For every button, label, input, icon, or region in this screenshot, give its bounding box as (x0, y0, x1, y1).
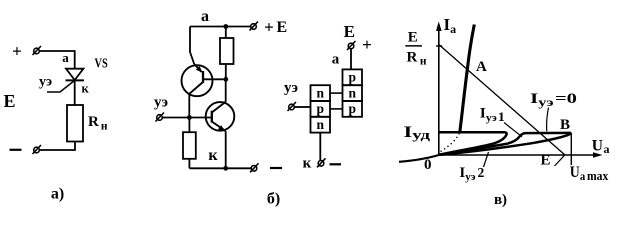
wire p3 to p2 link (330, 108, 343, 110)
svg-text:p: p (348, 101, 356, 116)
svg-text:E: E (277, 19, 288, 36)
terminal X4 (gate clamp) (156, 113, 165, 122)
junction base VT1 / collector VT2 / R1 (223, 77, 228, 82)
svg-text:E: E (408, 30, 418, 46)
wire gate rail (163, 117, 212, 119)
label minus (330, 163, 342, 165)
svg-text:уэ: уэ (39, 75, 52, 90)
junction cathode node (223, 166, 228, 171)
svg-text:а): а) (51, 186, 64, 203)
svg-text:Uаmax: Uаmax (570, 164, 609, 183)
svg-text:+: + (264, 18, 274, 37)
svg-text:A: A (476, 59, 487, 75)
wire cathode (319, 133, 321, 161)
pointer Iue1 to hook (504, 123, 522, 137)
wire resistor to minus terminal (40, 142, 76, 151)
svg-text:в): в) (494, 192, 507, 208)
layer n3 (left column bottom) (311, 117, 331, 133)
svg-text:а: а (332, 51, 340, 67)
wire anode: terminal to thyristor (40, 51, 75, 69)
svg-text:а: а (62, 50, 69, 65)
wire +E to resistor R1 (225, 27, 227, 39)
axis Ua (horizontal) (439, 154, 596, 156)
terminal X2 (cathode clamp) (33, 145, 42, 154)
layer p2 (right column bottom) (343, 101, 363, 117)
svg-text:0: 0 (424, 157, 432, 173)
svg-text:n: n (316, 85, 324, 100)
transistor VT2 (npn) (206, 102, 235, 131)
svg-text:p: p (316, 101, 324, 116)
pointer Iue=0 to curve (547, 108, 549, 132)
svg-text:+: + (362, 35, 372, 54)
layer p1 (right column top) (343, 69, 363, 85)
wire anode (350, 49, 352, 69)
svg-text:n: n (316, 117, 324, 132)
pointer Iue2 to curve (484, 152, 489, 167)
terminal X8 (cathode clamp) (317, 158, 326, 167)
terminal X1 (anode clamp) (33, 46, 42, 55)
svg-text:E: E (541, 153, 551, 169)
svg-text:к: к (208, 147, 218, 164)
terminal X6 (anode clamp) (347, 41, 356, 50)
tick E/RH on axis (436, 45, 442, 47)
svg-text:E: E (4, 91, 16, 111)
terminal X7 (gate clamp) (288, 102, 297, 111)
svg-text:VS: VS (95, 57, 108, 72)
wire gate node to resistor R2 (188, 118, 190, 133)
on-state branch (steep) (460, 25, 475, 133)
svg-text:б): б) (267, 191, 280, 208)
reverse branch (399, 155, 439, 162)
wire R2 to bottom rail (188, 159, 190, 169)
load line (439, 45, 565, 156)
svg-text:B: B (560, 117, 570, 133)
thyristor VS (66, 69, 85, 81)
svg-text:к: к (82, 82, 90, 96)
dashed negative-resistance arc (441, 133, 460, 152)
wire n2 to n1 link (330, 92, 343, 94)
wire left rail to VT1 emitter (190, 27, 194, 65)
wire gate (уэ lead) (47, 80, 75, 92)
wire gate to p3 (295, 106, 311, 108)
svg-text:E: E (344, 22, 355, 41)
layer p3 (left column middle) (311, 101, 331, 117)
wire VT2 emitter down (225, 131, 227, 168)
junction top node (223, 24, 228, 29)
resistor RH (load) (67, 105, 83, 142)
svg-text:а: а (201, 8, 209, 25)
terminal X5 (minus clamp) (250, 163, 259, 172)
axis Ia (vertical) (438, 29, 440, 155)
terminal X3 (+E clamp) (250, 22, 259, 31)
svg-text:к: к (303, 156, 312, 172)
wire cathode to resistor (74, 80, 76, 105)
transistor VT1 (pnp) (182, 64, 224, 96)
resistor R1 (220, 38, 234, 64)
pointer E to axis crossing (555, 155, 565, 166)
svg-text:n: n (348, 85, 356, 100)
wire R1 to base node (225, 64, 227, 79)
svg-text:уэ: уэ (284, 80, 298, 96)
svg-text:p: p (348, 70, 356, 85)
layer n2 (left column top) (311, 85, 331, 101)
svg-text:Iуд: Iуд (404, 124, 431, 142)
marker Ua max vertical (570, 133, 572, 165)
resistor R2 (183, 132, 196, 159)
arrowhead VT2 emitter (npn, out of base) (218, 125, 226, 131)
wire VT1 collector down to gate node (188, 94, 190, 118)
wire bottom rail (189, 167, 250, 169)
wire top rail (190, 26, 251, 28)
svg-text:+: + (12, 42, 22, 61)
curve Iue1 (leakage + hook to flat) (439, 133, 571, 155)
curve Iue2 (flat top + breakover hook) (439, 132, 507, 155)
label minus (270, 167, 282, 169)
curve Iue0 (leakage up to point B) (439, 133, 571, 155)
label minus (10, 149, 22, 151)
junction gate node (187, 115, 192, 120)
svg-text:уэ: уэ (154, 95, 168, 111)
wire VT2 collector up (225, 79, 227, 102)
arrowhead VT1 emitter (pnp, into base) (196, 66, 203, 73)
layer n1 (right column middle) (343, 85, 363, 101)
